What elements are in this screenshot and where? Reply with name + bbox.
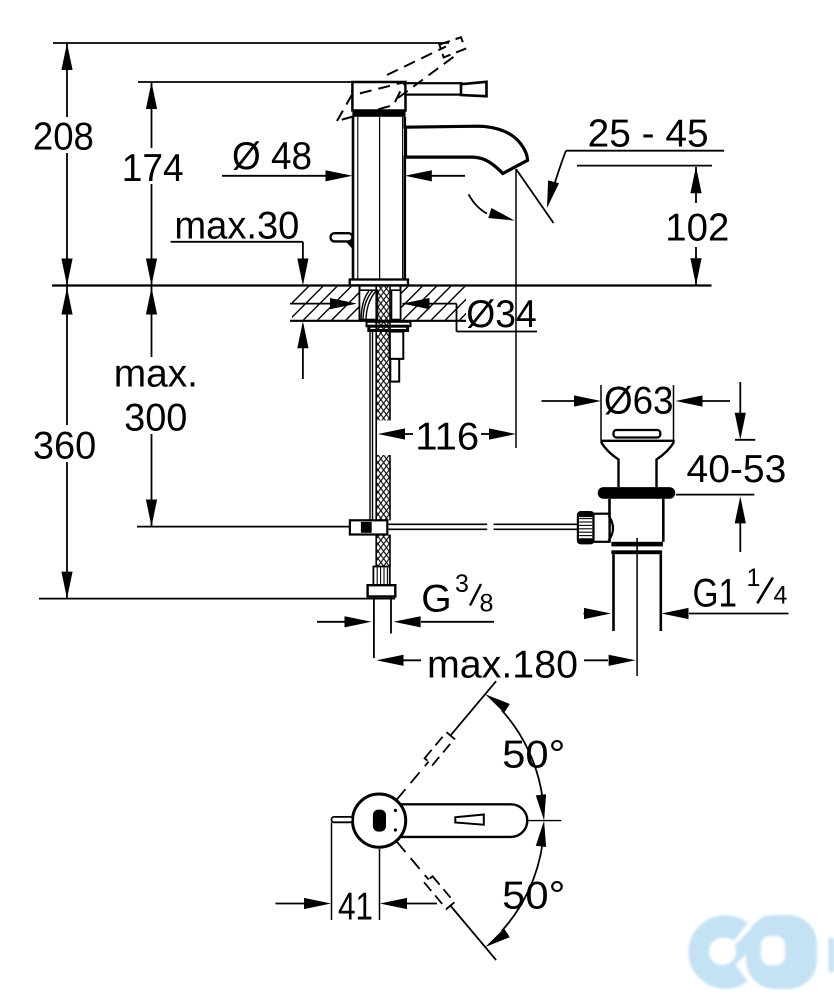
svg-text:174: 174 <box>122 147 184 190</box>
svg-text:8: 8 <box>480 589 494 617</box>
svg-text:102: 102 <box>665 206 729 249</box>
svg-text:300: 300 <box>124 397 187 440</box>
svg-text:G1: G1 <box>693 571 737 615</box>
svg-text:G: G <box>421 577 451 620</box>
svg-text:1: 1 <box>747 564 761 592</box>
svg-text:3: 3 <box>455 570 469 598</box>
svg-text:40-53: 40-53 <box>687 448 787 491</box>
svg-text:max.180: max.180 <box>427 644 578 687</box>
svg-text:Ø34: Ø34 <box>466 293 537 336</box>
svg-text:4: 4 <box>774 581 788 609</box>
svg-text:Ø63: Ø63 <box>604 379 674 422</box>
svg-text:50°: 50° <box>502 874 565 917</box>
svg-text:max.: max. <box>114 352 198 395</box>
svg-text:25 - 45: 25 - 45 <box>588 112 709 155</box>
svg-text:Ø 48: Ø 48 <box>232 135 312 178</box>
svg-text:41: 41 <box>338 885 373 928</box>
svg-text:360: 360 <box>33 424 96 467</box>
svg-text:50°: 50° <box>502 734 565 777</box>
svg-text:208: 208 <box>33 116 94 159</box>
svg-text:116: 116 <box>415 415 479 458</box>
